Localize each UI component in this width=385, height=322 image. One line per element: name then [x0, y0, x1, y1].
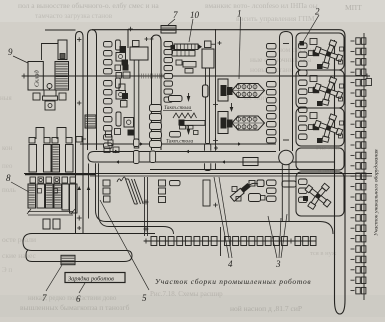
svg-text:ной насноп д ,81.7 сиР: ной насноп д ,81.7 сиР — [230, 304, 302, 313]
center tick a — [213, 104, 218, 106]
svg-text:Э п: Э п — [2, 266, 12, 274]
pill wide low — [282, 181, 296, 187]
band gap box — [296, 148, 344, 170]
axis tick left — [22, 75, 27, 77]
right small sq — [366, 79, 372, 86]
machine TL boxed glyph — [45, 101, 55, 110]
tall racks upper — [29, 145, 37, 173]
center stem — [206, 68, 210, 143]
dimension line — [28, 211, 73, 213]
center head — [202, 49, 214, 68]
slanted rack b — [132, 179, 141, 204]
frame corner top-right — [339, 30, 345, 300]
pill column C low — [267, 180, 277, 185]
svg-text:осте реали: осте реали — [2, 235, 36, 244]
bracket U1 — [36, 128, 44, 140]
band bg — [84, 151, 282, 164]
bottom divider — [220, 227, 222, 256]
bottom line — [144, 240, 316, 242]
takt pill top — [169, 96, 183, 102]
lane x146 tick — [144, 201, 149, 203]
assembly cell 1 — [218, 79, 228, 101]
svg-text:ские навес: ские навес — [2, 251, 37, 260]
axis line lower 2 — [90, 175, 372, 177]
bottom tick l — [144, 240, 149, 242]
svg-text:вманкис вото- лconfeso ил IНПа: вманкис вото- лconfeso ил IНПа оы — [205, 1, 318, 10]
pill column C — [267, 44, 277, 49]
band pill b1 — [134, 139, 140, 147]
lane x76 tick mid — [77, 102, 82, 104]
loop R tick2 — [283, 139, 289, 141]
tick right of box — [218, 42, 222, 44]
lane x146 tick2 — [144, 228, 149, 230]
charge feeder box — [61, 255, 75, 264]
right rail U-bottom — [335, 300, 346, 314]
arrow between cells — [231, 103, 233, 107]
svg-text:пол а выносстве обычного-о. ел: пол а выносстве обычного-о. елбу смес и … — [18, 1, 159, 10]
takt arrow down a — [187, 96, 191, 102]
machine TL sq right — [59, 93, 66, 100]
svg-text:вышленных бымагкопза п танозгб: вышленных бымагкопза п танозгб — [20, 303, 130, 312]
bottom tick r — [289, 240, 294, 242]
takt small sq — [194, 131, 199, 135]
svg-text:2: 2 — [315, 7, 320, 17]
hatched store box — [55, 62, 69, 91]
white rect inner — [60, 54, 65, 59]
center stem low — [205, 144, 211, 157]
leader 3b — [279, 218, 281, 258]
lane x76 tick — [77, 217, 82, 219]
leader 4b — [219, 177, 232, 258]
band box — [243, 158, 258, 166]
svg-text:1: 1 — [237, 9, 242, 19]
robot cell 2 — [296, 70, 344, 108]
robot cell 3 — [296, 108, 344, 146]
band arrow 4 — [186, 150, 189, 154]
svg-text:Участок сборки промышленных ро: Участок сборки промышленных роботов — [155, 277, 311, 286]
tick near paddle — [145, 38, 149, 40]
svg-text:7: 7 — [173, 10, 178, 20]
loop L1 — [76, 32, 84, 234]
svg-text:6: 6 — [76, 294, 81, 304]
robot cell 4 — [296, 172, 344, 216]
machine TL base — [43, 96, 58, 100]
below-band sq col R — [159, 180, 166, 186]
center stem car — [203, 85, 209, 97]
bottom squares group3 — [295, 237, 301, 246]
band arrow 3 — [115, 150, 118, 154]
loop R tick — [283, 43, 289, 45]
hatched 3000Nm — [85, 115, 96, 128]
lane pair x146 — [144, 177, 146, 236]
slanted rack a — [126, 179, 135, 204]
machine cluster U2 — [116, 78, 121, 88]
svg-text:ныя: ныя — [0, 94, 12, 102]
bracket above sklad — [42, 44, 59, 61]
svg-text:поль: поль — [2, 186, 16, 194]
band arrow 6 — [222, 160, 225, 164]
robot manipulator center — [230, 183, 251, 202]
leader 8 — [11, 182, 29, 192]
assembly cell 2 — [218, 112, 228, 134]
band pill c1 — [150, 151, 156, 163]
svg-text:10: 10 — [190, 10, 200, 20]
pill column A — [104, 42, 113, 47]
machine TL stem — [49, 89, 51, 91]
band arrow 1 — [140, 142, 143, 146]
vi squiggle — [117, 177, 126, 182]
block divider — [25, 174, 95, 176]
machine cluster U — [116, 40, 121, 50]
center bar below band — [203, 180, 210, 206]
mark at leader2 — [300, 41, 305, 46]
svg-text:тся в нуж: тся в нуж — [310, 250, 337, 257]
right rail inner — [334, 40, 336, 300]
bottom squares group1 — [151, 237, 157, 246]
svg-text:Рис.7.18. Схемы расшир: Рис.7.18. Схемы расшир — [150, 290, 223, 298]
lane x88 seg — [88, 164, 90, 219]
machine TL sq left — [33, 93, 40, 100]
paddle top square — [133, 41, 140, 47]
takt underline 1 — [163, 109, 192, 111]
axis line lower — [24, 173, 372, 175]
leader 3c — [281, 214, 287, 258]
bar B — [26, 251, 132, 262]
axis line upper — [22, 75, 370, 77]
svg-text:7: 7 — [42, 293, 47, 303]
station column right — [363, 33, 365, 300]
machine TL circle — [47, 84, 52, 89]
squares row upper — [29, 138, 35, 144]
leader 3a — [268, 216, 277, 258]
bar A — [23, 234, 155, 251]
pill column B — [164, 42, 173, 47]
leader 7 bottom — [46, 265, 62, 291]
charging label box — [65, 273, 125, 283]
takt arrow down b — [187, 129, 191, 135]
squares row mid — [30, 177, 36, 183]
rsq column Takt — [150, 105, 162, 112]
axis fence — [138, 74, 140, 79]
leader 1 — [239, 17, 241, 79]
square w tick — [76, 137, 82, 143]
loop R — [280, 32, 293, 152]
center tick c — [213, 204, 218, 206]
svg-text:тамчасто загрузка станов: тамчасто загрузка станов — [35, 12, 113, 20]
box 7 target — [161, 26, 176, 34]
stub tick — [77, 39, 82, 41]
pill column D — [299, 43, 308, 49]
svg-text:9: 9 — [8, 47, 13, 57]
paddle head — [130, 47, 148, 60]
below-band pill R — [170, 181, 181, 186]
svg-text:МПТ: МПТ — [345, 3, 362, 12]
leader 9 — [13, 56, 28, 63]
pair squares below — [43, 219, 50, 229]
svg-text:Зарядка роботов: Зарядка роботов — [68, 276, 114, 283]
band pill b2 — [134, 151, 140, 164]
bottom squares group2 — [225, 237, 231, 246]
bracket U2 — [57, 128, 66, 140]
svg-text:кон: кон — [2, 144, 13, 152]
leader 10 — [189, 19, 193, 42]
box on frame — [205, 41, 212, 48]
svg-text:3: 3 — [275, 259, 281, 269]
spine x215 — [215, 29, 217, 170]
frame drop at x=128 — [127, 29, 129, 48]
svg-text:8: 8 — [6, 173, 11, 183]
leader 7 top — [168, 19, 175, 25]
svg-text:5: 5 — [142, 293, 147, 303]
svg-text:пео: пео — [2, 162, 13, 170]
paddle stem — [134, 60, 139, 148]
svg-text:висить управления ГПМ: висить управления ГПМ — [236, 14, 315, 23]
center tick b — [213, 140, 218, 142]
loop R tail — [281, 165, 283, 222]
top frame line — [92, 29, 339, 31]
below-band sq col L — [103, 180, 110, 186]
band arrow 5 — [116, 160, 119, 164]
bottom join outer — [96, 163, 334, 234]
stub line top-left — [45, 29, 76, 31]
svg-text:Участок уникального оборудов: Участок уникального оборудования — [373, 149, 380, 236]
leader 5 — [100, 200, 149, 290]
band stadium — [88, 152, 334, 163]
tall racks lower — [28, 184, 36, 208]
band line top — [80, 143, 276, 145]
svg-text:4: 4 — [228, 259, 233, 269]
band line low — [150, 169, 334, 171]
svg-text:Такт.стола: Такт.стола — [166, 139, 194, 145]
loop L2 — [88, 30, 97, 150]
band arrow 2 — [238, 142, 241, 146]
leader 6 — [79, 283, 85, 293]
lane x76 tick2 — [77, 227, 81, 229]
bottom join inner — [99, 163, 174, 234]
axis tick right — [365, 75, 370, 77]
band tick x215 — [214, 147, 218, 149]
leader 4a — [214, 177, 229, 258]
leader 2 — [303, 15, 319, 42]
sklad box — [28, 62, 43, 91]
machine 10 — [174, 44, 198, 50]
tick on frame — [128, 28, 133, 30]
takt pill low — [170, 132, 181, 138]
white rect top — [58, 40, 67, 60]
machine TL body — [44, 90, 56, 96]
takt machine — [173, 113, 197, 118]
lane x76 arrow — [77, 186, 81, 190]
svg-text:Склад: Склад — [34, 70, 41, 87]
machine cluster L — [116, 112, 121, 126]
robot cell 1 — [296, 33, 344, 70]
lane x88 arrow — [87, 186, 91, 190]
loop L3 — [152, 35, 162, 150]
loop R turntable — [279, 150, 294, 165]
